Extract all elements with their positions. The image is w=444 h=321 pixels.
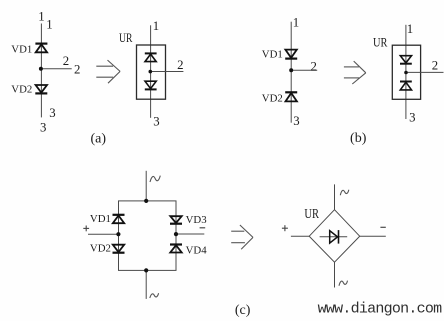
svg-text:1: 1	[46, 18, 52, 32]
svg-text:1: 1	[38, 10, 44, 24]
svg-text:www.diangon.com: www.diangon.com	[318, 301, 443, 318]
svg-text:3: 3	[49, 106, 55, 120]
svg-text:3: 3	[409, 110, 415, 124]
svg-text:UR: UR	[119, 31, 133, 45]
svg-text:1: 1	[407, 22, 413, 36]
svg-text:VD1: VD1	[11, 43, 32, 55]
svg-text:2: 2	[74, 63, 80, 77]
svg-text:(c): (c)	[235, 303, 251, 318]
svg-text:(b): (b)	[350, 131, 367, 146]
svg-text:(a): (a)	[91, 132, 107, 147]
svg-text:VD2: VD2	[262, 93, 283, 105]
svg-text:VD1: VD1	[262, 48, 283, 60]
svg-text:2: 2	[63, 54, 69, 68]
svg-text:VD2: VD2	[11, 83, 32, 95]
svg-text:UR: UR	[304, 207, 319, 222]
svg-text:1: 1	[153, 19, 159, 33]
svg-text:2: 2	[432, 59, 438, 73]
svg-text:VD3: VD3	[186, 214, 207, 226]
svg-text:UR: UR	[373, 35, 388, 49]
svg-text:VD4: VD4	[186, 245, 208, 257]
svg-text:2: 2	[177, 58, 183, 72]
svg-text:3: 3	[293, 114, 299, 128]
svg-text:VD2: VD2	[90, 243, 111, 255]
svg-text:3: 3	[153, 114, 159, 128]
svg-text:2: 2	[310, 59, 316, 73]
svg-text:VD1: VD1	[90, 213, 111, 225]
svg-text:1: 1	[293, 15, 299, 29]
svg-text:3: 3	[40, 120, 46, 134]
